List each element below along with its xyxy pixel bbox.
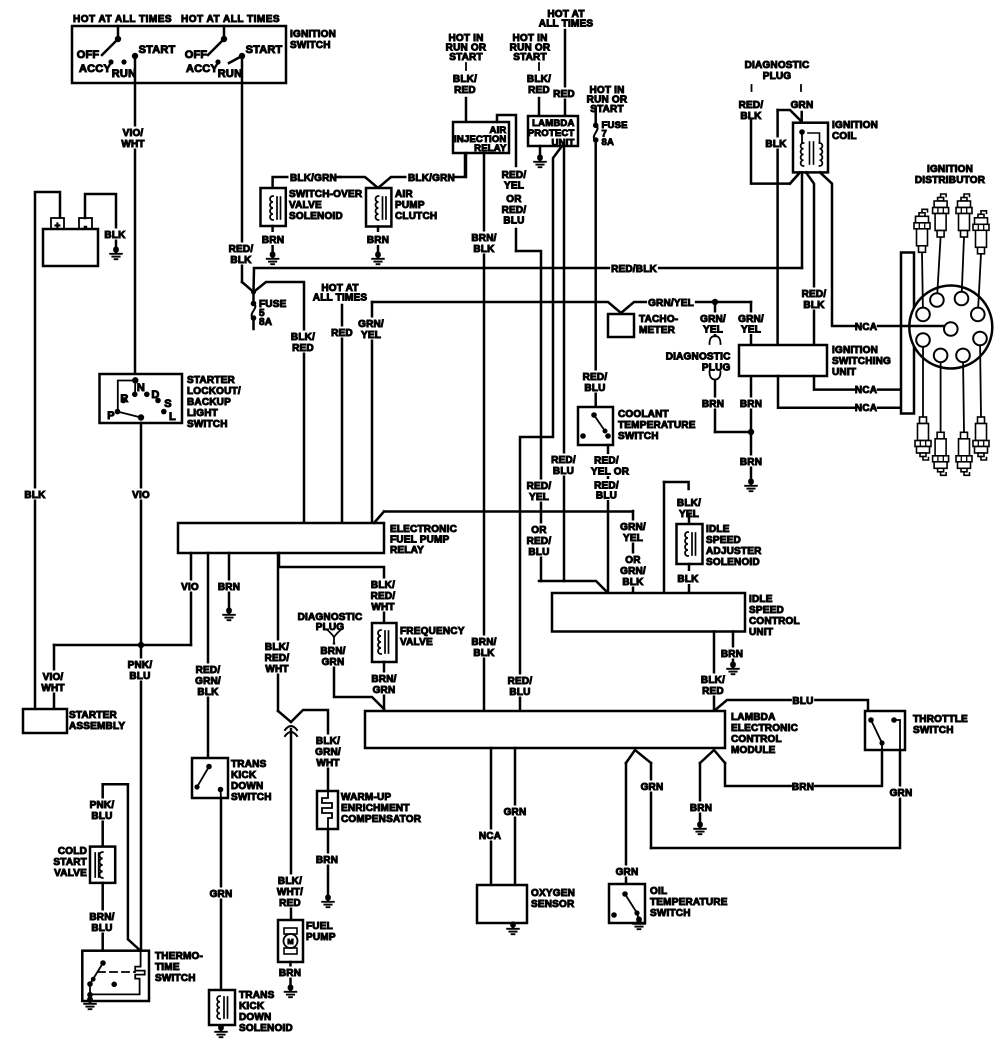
svg-text:VIO/WHT: VIO/WHT [121,128,144,150]
svg-text:BRN/GRN: BRN/GRN [320,646,345,668]
svg-text:P: P [107,410,115,422]
svg-text:TACHO-METER: TACHO-METER [639,314,678,336]
svg-text:NCA: NCA [855,385,877,396]
svg-text:BLK/RED: BLK/RED [291,332,315,354]
svg-text:BLK/RED/WHT: BLK/RED/WHT [371,580,396,613]
svg-text:GRN: GRN [616,867,639,878]
svg-text:START: START [139,44,176,56]
svg-text:BLK/RED/WHT: BLK/RED/WHT [265,642,290,675]
svg-text:BRN: BRN [740,457,762,468]
svg-text:BRN/BLK: BRN/BLK [471,637,496,659]
svg-text:RED: RED [553,89,575,100]
svg-text:BRN/BLU: BRN/BLU [89,912,114,934]
svg-text:BRN: BRN [262,235,284,246]
svg-text:HOT AT ALL TIMES: HOT AT ALL TIMES [181,14,280,25]
svg-text:BRN: BRN [218,582,240,593]
svg-text:S: S [164,398,172,410]
svg-text:PNK/BLU: PNK/BLU [128,660,153,682]
svg-text:BLK: BLK [24,490,46,501]
svg-text:BLK: BLK [104,230,126,241]
svg-text:ACCY: ACCY [186,63,218,75]
svg-text:VIO: VIO [132,490,150,501]
svg-text:BRN: BRN [740,399,762,410]
svg-text:OXYGENSENSOR: OXYGENSENSOR [531,888,575,910]
svg-text:RED/BLK: RED/BLK [802,289,827,311]
svg-text:GRN: GRN [504,807,527,818]
svg-text:BLK/WHT/RED: BLK/WHT/RED [277,876,303,909]
svg-text:BLK: BLK [765,139,787,150]
svg-text:GRN: GRN [641,782,664,793]
svg-text:BRN/BLK: BRN/BLK [471,233,496,255]
svg-text:FUELPUMP: FUELPUMP [306,921,336,943]
svg-text:RED/YEL: RED/YEL [527,481,552,503]
svg-text:BLK/RED: BLK/RED [701,675,725,697]
svg-text:L: L [169,411,176,423]
svg-text:COLDSTARTVALVE: COLDSTARTVALVE [53,846,87,879]
svg-text:RUN: RUN [112,68,136,80]
svg-text:HOT INRUN ORSTART: HOT INRUN ORSTART [446,33,487,63]
svg-text:BRN: BRN [316,855,338,866]
svg-text:ACCY: ACCY [79,63,111,75]
svg-text:HOT INRUN ORSTART: HOT INRUN ORSTART [510,33,551,63]
svg-text:GRN/YEL: GRN/YEL [620,522,646,544]
svg-text:OFF: OFF [185,49,208,61]
svg-text:VIO/WHT: VIO/WHT [41,672,64,694]
svg-text:RED/YEL: RED/YEL [502,170,527,192]
svg-text:BLK/GRN: BLK/GRN [408,173,455,184]
svg-text:VIO: VIO [181,582,199,593]
svg-text:BLK/GRN: BLK/GRN [290,173,337,184]
svg-text:GRN: GRN [210,889,233,900]
svg-text:NCA: NCA [855,403,877,414]
svg-text:NCA: NCA [855,322,877,333]
svg-text:BRN: BRN [721,649,743,660]
svg-text:GRN/YEL: GRN/YEL [648,298,694,309]
svg-text:GRN/YEL: GRN/YEL [700,314,726,336]
svg-text:GRN: GRN [791,100,814,111]
svg-text:M: M [287,937,293,946]
svg-text:RUN: RUN [218,68,242,80]
svg-text:RED/BLK: RED/BLK [229,244,254,266]
svg-text:N: N [137,382,145,394]
svg-text:HOT AT ALL TIMES: HOT AT ALL TIMES [73,14,172,25]
svg-text:RED/BLU: RED/BLU [551,455,576,477]
svg-text:RED/BLK: RED/BLK [739,100,764,122]
svg-text:BLK: BLK [677,574,699,585]
svg-text:GRN/YEL: GRN/YEL [738,314,764,336]
svg-text:BRN: BRN [792,782,814,793]
svg-text:GRN/YEL: GRN/YEL [358,319,384,341]
svg-text:BRN: BRN [690,803,712,814]
svg-text:RED/BLU: RED/BLU [508,676,533,698]
svg-text:RED/BLU: RED/BLU [594,481,619,502]
svg-text:YEL OR: YEL OR [591,467,630,478]
svg-text:RED/GRN/BLK: RED/GRN/BLK [195,665,221,698]
svg-text:RED/: RED/ [594,456,619,467]
svg-text:HOT INRUN ORSTART: HOT INRUN ORSTART [587,85,628,115]
svg-text:OFF: OFF [77,49,100,61]
svg-text:BRN: BRN [702,399,724,410]
svg-text:BLK/GRN/WHT: BLK/GRN/WHT [315,736,341,769]
svg-text:GRN: GRN [890,788,913,799]
svg-text:IGNITIONSWITCH: IGNITIONSWITCH [290,29,336,51]
svg-text:BRN/GRN: BRN/GRN [371,674,396,696]
svg-text:BLK/RED: BLK/RED [527,74,551,96]
svg-text:RED: RED [331,328,353,339]
svg-text:NCA: NCA [479,831,501,842]
svg-text:BLK/RED: BLK/RED [453,74,477,96]
svg-text:START: START [246,44,283,56]
svg-text:RED/BLU: RED/BLU [583,372,608,394]
svg-text:RED/BLK: RED/BLK [611,264,657,275]
svg-text:BRN: BRN [279,968,301,979]
svg-text:BLU: BLU [792,696,813,707]
svg-text:BRN: BRN [367,235,389,246]
svg-text:PNK/BLU: PNK/BLU [90,800,115,822]
